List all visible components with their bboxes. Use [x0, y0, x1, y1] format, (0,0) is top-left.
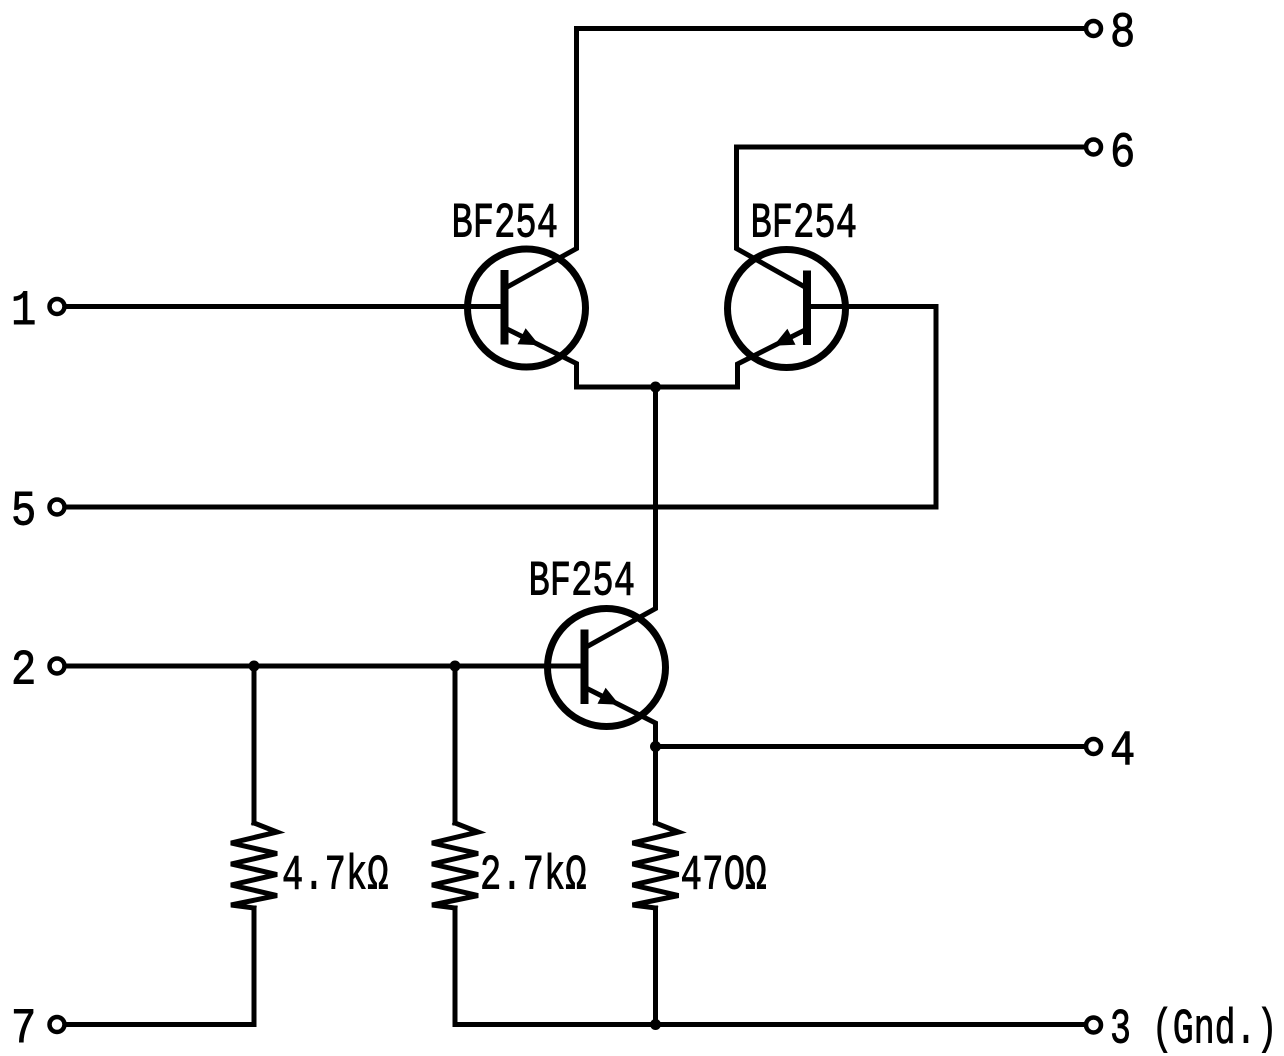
svg-text:2.7kΩ: 2.7kΩ — [480, 848, 587, 904]
svg-text:1: 1 — [11, 283, 36, 339]
terminal pin 1 — [50, 299, 65, 314]
wire pin 6 to Q2 collector — [737, 147, 1086, 287]
wire pin 1 to Q1 base — [66, 304, 502, 309]
svg-text:8: 8 — [1110, 5, 1135, 61]
resistor R2 — [432, 823, 478, 908]
wire R2 top lead — [453, 666, 458, 823]
node B (Q3 emitter junction) — [650, 741, 661, 752]
terminal pin 2 — [50, 659, 65, 674]
wire pin 7 to R1 bottom lead — [68, 908, 254, 1025]
wire pin 2 to Q3 base — [66, 664, 582, 669]
svg-text:5: 5 — [11, 484, 36, 540]
svg-text:BF254: BF254 — [452, 196, 559, 252]
terminal pin 8 — [1086, 21, 1101, 36]
node A (emitter junction) — [650, 382, 661, 393]
transistor Q2 (BF254) — [728, 250, 846, 368]
svg-text:BF254: BF254 — [751, 196, 858, 252]
wire pin 8 to Q1 collector — [509, 29, 1085, 287]
wire node B to pin 4 — [656, 744, 1086, 749]
junction pin 2 / R2 — [450, 661, 461, 672]
wire Q1 emitter to node A — [509, 330, 656, 387]
wire Q3 emitter to node B — [589, 690, 656, 747]
wire ground: R2 bottom to pin 3 — [455, 908, 1085, 1025]
svg-text:2: 2 — [11, 643, 36, 699]
svg-text:6: 6 — [1110, 125, 1135, 181]
svg-text:47OΩ: 47OΩ — [681, 848, 767, 904]
junction pin 2 / R1 — [249, 661, 260, 672]
terminal pin 6 — [1086, 140, 1101, 155]
terminal pin 4 — [1086, 739, 1101, 754]
svg-text:4.7kΩ: 4.7kΩ — [282, 848, 389, 904]
junction R3 / ground wire — [650, 1019, 661, 1030]
wire node A to Q3 collector — [589, 387, 656, 646]
resistor R3 — [633, 823, 679, 908]
wire R3 bottom lead — [653, 908, 658, 1025]
svg-text:7: 7 — [11, 1001, 36, 1056]
terminal pin 5 — [50, 500, 65, 515]
terminal pin 3 — [1086, 1018, 1101, 1033]
svg-text:4: 4 — [1110, 723, 1135, 779]
svg-text:3 (Gnd.): 3 (Gnd.) — [1110, 1002, 1277, 1056]
svg-text:BF254: BF254 — [529, 554, 636, 610]
transistor Q1 (BF254) — [468, 249, 586, 367]
wire Q2 emitter to node A — [656, 331, 805, 388]
resistor R1 — [231, 823, 277, 908]
terminal pin 7 — [50, 1017, 65, 1032]
wire R1 top lead — [252, 666, 257, 823]
wire R3 top lead (node B to R3) — [653, 747, 658, 824]
wire Q2 base to pin 5 — [66, 307, 936, 508]
transistor Q3 (BF254) — [548, 609, 666, 727]
